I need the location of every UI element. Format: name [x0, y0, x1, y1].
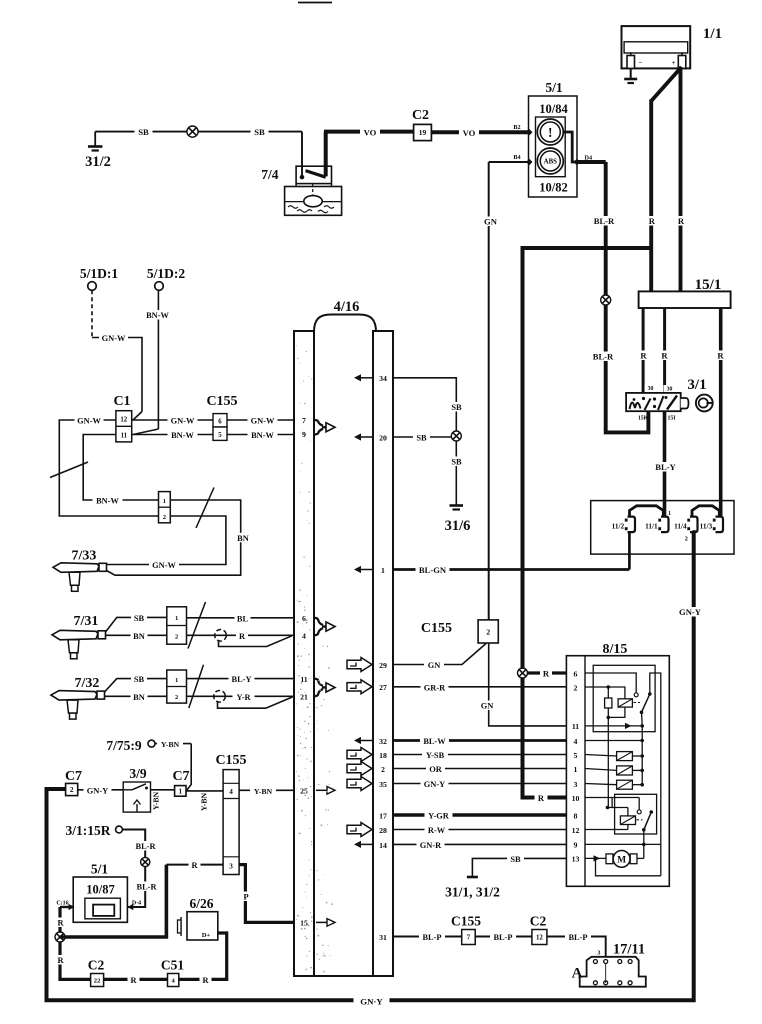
parking brake switch 3/9 — [123, 782, 150, 812]
output arrow pin 20 — [359, 436, 373, 438]
wire BL-P from C155 pin 7 to C2 pin 12 — [475, 936, 532, 938]
svg-text:2: 2 — [175, 694, 178, 701]
wire GN from 4/16 pin 29 to connector C155 pin 2 — [393, 644, 486, 665]
bulb failure box with bulbs 11/2 11/1 11/4 11/3 — [591, 501, 734, 554]
wire Y-BN from C155 pin 4 to 4/16 pin 25 — [239, 789, 294, 791]
terminal B2 of 5/1 — [526, 129, 532, 135]
wire BN from sensor connector pin 1 to 7/33 — [106, 500, 240, 575]
svg-text:C7: C7 — [172, 769, 189, 784]
svg-text:2: 2 — [70, 786, 74, 794]
svg-text:9: 9 — [302, 430, 306, 439]
svg-text:12: 12 — [572, 826, 580, 835]
wire GN-W from C1 pin 12 left to sensor connector pin 2 — [59, 420, 158, 516]
svg-text:2: 2 — [574, 683, 578, 692]
battery negative ground — [630, 68, 632, 79]
svg-text:11: 11 — [572, 722, 579, 731]
terminal 5/1D:2 — [155, 282, 164, 291]
output arrow pin 34 — [359, 377, 373, 379]
svg-text:BL-R: BL-R — [135, 842, 156, 851]
svg-text:31/6: 31/6 — [445, 518, 471, 534]
svg-text:7: 7 — [302, 416, 306, 425]
fluid level switch 7/4 — [285, 166, 342, 215]
svg-text:SB: SB — [416, 434, 427, 443]
svg-text:4: 4 — [229, 788, 233, 796]
svg-text:+: + — [672, 59, 676, 67]
svg-text:11: 11 — [121, 433, 128, 440]
module stipple texture — [296, 345, 333, 972]
bulb 11/3 — [716, 517, 724, 533]
wire R from splice to C155 pin 3 wire — [60, 865, 166, 937]
wire SB from 4/16 pin 34 to splice — [393, 378, 456, 431]
wire GN-Y from 4/16 pin 35 to 8/15 pin 3 — [393, 783, 566, 785]
svg-text:3: 3 — [597, 950, 600, 957]
svg-text:BN: BN — [237, 534, 249, 543]
svg-text:R: R — [661, 351, 668, 361]
svg-text:29: 29 — [379, 661, 387, 670]
svg-text:GN-Y: GN-Y — [87, 786, 108, 795]
key symbol of ignition switch 3/1 — [696, 395, 713, 412]
motor to relay 2 switch wire — [637, 857, 644, 859]
svg-text:C:16: C:16 — [56, 900, 68, 906]
svg-text:7: 7 — [467, 934, 471, 941]
svg-text:BL-Y: BL-Y — [231, 675, 251, 684]
fuse box 15/1 — [639, 291, 731, 308]
svg-text:BN-W: BN-W — [146, 311, 169, 320]
svg-text:25: 25 — [300, 787, 308, 796]
svg-text:A: A — [572, 966, 583, 982]
wire BL-P from 4/16 pin 31 to C155 pin 7 — [393, 936, 462, 938]
input arrow pin 15 — [316, 921, 327, 923]
svg-text:21: 21 — [300, 693, 308, 702]
svg-text:30: 30 — [648, 386, 654, 392]
wire SB from 7/32 to connector pin 1 — [105, 679, 167, 692]
svg-text:VO: VO — [364, 128, 377, 138]
wire BN-W from C1 pin 11 left to sensor connector pin 1 — [83, 435, 158, 501]
wire GN-W from C155 pin 6 to 4/16 pin 7 — [227, 419, 294, 421]
wire SB from 4/16 pin 20 to splice — [393, 436, 451, 438]
svg-text:GN-W: GN-W — [77, 417, 101, 426]
output arrow pin 2 — [347, 762, 372, 776]
connector C2 pin 19 — [414, 124, 432, 140]
output arrow pin 35 — [347, 777, 372, 791]
svg-text:11/3: 11/3 — [700, 521, 713, 530]
svg-text:12: 12 — [120, 417, 127, 424]
wheel speed sensor 7/31 — [52, 630, 98, 640]
wire from relay 1 blade to motor loop — [650, 673, 661, 876]
svg-text:27: 27 — [379, 683, 387, 692]
relay 2 fixed contact — [638, 798, 640, 810]
wire BL-R from 5/1 terminal D4 to ignition switch terminal 15K — [577, 160, 606, 164]
svg-text:5: 5 — [574, 751, 578, 760]
connector C155 pins 4 and 3 — [223, 770, 239, 875]
cable slash mark — [196, 488, 214, 529]
svg-text:18: 18 — [379, 751, 387, 760]
svg-text:7/32: 7/32 — [75, 676, 100, 691]
svg-text:C155: C155 — [206, 394, 237, 409]
svg-text:2: 2 — [175, 634, 178, 641]
svg-text:11/4: 11/4 — [674, 521, 687, 530]
svg-text:BN: BN — [133, 632, 145, 641]
svg-text:GN·Y: GN·Y — [360, 997, 383, 1007]
svg-text:2: 2 — [163, 514, 166, 521]
splice on SB wire — [187, 126, 198, 137]
8/15 internal wire pin 13 to motor — [585, 857, 606, 859]
svg-text:GN-R: GN-R — [420, 841, 442, 850]
wire BN from 7/32 to connector pin 2 — [105, 695, 167, 697]
svg-text:13: 13 — [572, 855, 580, 864]
wire GN-W from C1 pin 12 to C155 pin 6 — [132, 419, 213, 421]
connector C2 pin 12 — [532, 930, 547, 945]
sensor connector for 7/31 pins 1 and 2 — [167, 607, 187, 644]
svg-text:R-W: R-W — [428, 826, 446, 835]
svg-text:BL-Y: BL-Y — [655, 462, 676, 472]
svg-text:5: 5 — [218, 432, 222, 439]
svg-text:C155: C155 — [215, 753, 246, 768]
svg-text:C155: C155 — [451, 914, 481, 929]
wire R segment inside bulb box to 11/3 — [719, 501, 723, 517]
wire VO from 7/4 to connector C2 — [324, 132, 328, 177]
page mark — [298, 2, 332, 4]
svg-text:BN: BN — [133, 693, 145, 702]
bulb 11/4 — [690, 517, 698, 533]
svg-text:BL-R: BL-R — [136, 883, 157, 892]
svg-text:Y-SB: Y-SB — [426, 751, 445, 760]
svg-text:R: R — [239, 632, 246, 641]
svg-text:7/33: 7/33 — [72, 549, 97, 564]
vertical node wire in 8/15 — [607, 717, 609, 807]
relay 1 switch blade — [642, 694, 650, 712]
svg-text:5/1D:2: 5/1D:2 — [147, 266, 185, 281]
svg-text:GN: GN — [484, 217, 498, 227]
svg-text:C2: C2 — [530, 914, 547, 929]
svg-text:7/4: 7/4 — [261, 167, 279, 182]
wire SB from ground 31/2 to sensor 7/4 — [95, 131, 302, 133]
wire R-W from 4/16 pin 28 to 8/15 pin 12 — [393, 829, 566, 831]
wire BN from 7/31 to connector pin 2 — [106, 634, 167, 636]
svg-text:4: 4 — [302, 632, 306, 641]
output arrow pin 29 — [347, 658, 372, 672]
svg-text:6: 6 — [218, 418, 222, 425]
svg-text:15/1: 15/1 — [695, 277, 722, 293]
wire BL-W from 4/16 pin 32 to 8/15 pin 4 — [393, 739, 566, 742]
wire R to 8/15 pin 6 — [528, 671, 567, 674]
svg-text:3: 3 — [574, 780, 578, 789]
svg-text:!: ! — [548, 125, 553, 140]
svg-text:R: R — [649, 216, 656, 226]
wire into 7/4 switch contact — [301, 132, 303, 178]
wire R with shield loop from connector to 4/16 pin 4 — [187, 634, 294, 636]
svg-text:BL-W: BL-W — [423, 737, 446, 746]
8/15 internal wire pin 10 — [585, 797, 639, 799]
wire GN from 5/1 terminal B4 down to connector C155 pin 2 — [489, 161, 529, 163]
ignition switch 3/1 — [626, 393, 688, 411]
svg-text:8/15: 8/15 — [603, 642, 628, 657]
connector C155 pin 2 — [478, 620, 498, 643]
data link connector 17/11 — [580, 957, 646, 987]
8/15 solenoid 1 — [585, 769, 617, 771]
wire BL-P from C2 pin 12 to data link connector 17/11 pin 3 — [547, 937, 606, 962]
8/15 solenoid 3 — [585, 784, 617, 785]
svg-text:R: R — [57, 956, 64, 965]
8/15 internal wire pin 11 — [585, 725, 642, 727]
wheel speed sensor 7/33 — [53, 563, 99, 573]
wire VO from C2 to warning lamp cluster 5/1 terminal B2 — [431, 130, 529, 134]
svg-text:22: 22 — [94, 977, 101, 984]
ground 31/1 31/2 — [467, 876, 478, 879]
svg-text:C51: C51 — [161, 958, 184, 973]
rail R from 10/87 down to connector C2 pin 22 — [60, 907, 91, 979]
svg-text:P: P — [243, 893, 248, 902]
relay 2 switch blade — [650, 810, 654, 814]
svg-text:8: 8 — [574, 811, 578, 820]
connector C51 pin 4 — [168, 974, 179, 987]
relay box 8/15 — [566, 656, 669, 887]
sensor connector for 7/33 pins 1 and 2 — [159, 492, 171, 523]
wire lamp 10/84 to terminal D4 — [563, 132, 577, 162]
wire SB from splice to ground 31/6 — [455, 441, 457, 506]
svg-text:C1: C1 — [113, 394, 130, 409]
wire OR from 4/16 pin 2 to 8/15 pin 1 — [393, 768, 566, 770]
svg-text:VO: VO — [463, 128, 476, 138]
svg-text:SB: SB — [254, 127, 265, 137]
svg-text:R: R — [202, 976, 209, 985]
svg-text:GR-R: GR-R — [424, 683, 446, 692]
svg-text:BL-R: BL-R — [593, 352, 614, 362]
wire SB from 7/31 to connector pin 1 — [106, 617, 167, 632]
ground 31/6 — [450, 504, 464, 507]
svg-text:7/75:9: 7/75:9 — [106, 738, 141, 753]
wire Y-SB from 4/16 pin 18 to 8/15 pin 5 — [393, 754, 566, 756]
wire BL from connector to 4/16 pin 6 — [187, 617, 294, 619]
svg-text:1: 1 — [175, 677, 178, 684]
svg-text:R: R — [57, 919, 64, 928]
svg-text:6: 6 — [574, 669, 578, 678]
splice on BL-R wire — [141, 857, 150, 866]
input arrow pins 6/4 — [315, 618, 324, 625]
wire R from C2 pin 22 to C51 pin 4 — [104, 978, 168, 981]
return pump motor M — [606, 851, 637, 868]
svg-text:R: R — [678, 216, 685, 226]
warning lamp cluster 5/1 with lamps 10/84 and 10/82 — [529, 80, 578, 197]
svg-text:BL-GN: BL-GN — [419, 565, 447, 575]
wire GN from C155 pin 2 down to relay box 8/15 pin 11 — [489, 643, 567, 726]
svg-text:R: R — [543, 669, 550, 679]
wire Y-BN from 7/75:9 joining C7 pin 1 output — [155, 743, 191, 745]
wire GN-W from sensor connector pin 2 to 7/33 — [106, 516, 225, 565]
svg-text:6: 6 — [302, 614, 306, 623]
relay 1 resistor — [607, 687, 609, 698]
bridge wire bulbs 11/4 to 11/3 — [692, 506, 719, 517]
wire GN-Y from bulb 11/4 to bottom rail and up to connector C7 pin 2 — [47, 532, 694, 1000]
brake warning lamp 10/84 — [537, 119, 563, 145]
svg-text:15K: 15K — [638, 416, 649, 422]
relay 2 coil — [627, 808, 629, 816]
svg-text:1: 1 — [668, 510, 671, 517]
svg-text:Y-R: Y-R — [236, 693, 251, 702]
svg-text:GN-Y: GN-Y — [679, 607, 702, 617]
svg-text:C2: C2 — [88, 958, 105, 973]
svg-text:2: 2 — [486, 627, 490, 636]
splice of SB wires — [451, 431, 461, 441]
svg-text:−: − — [639, 59, 643, 67]
connector C2 pin 22 — [91, 974, 104, 987]
svg-text:5/1: 5/1 — [91, 862, 109, 877]
connector C7 pin 1 — [175, 786, 186, 797]
svg-text:OR: OR — [429, 765, 443, 774]
svg-text:5/1: 5/1 — [545, 80, 563, 95]
svg-text:20: 20 — [379, 434, 387, 443]
svg-text:7/31: 7/31 — [74, 614, 99, 629]
ABS control module 4/16 — [294, 315, 393, 977]
8/15 internal wire pin 12 — [585, 829, 628, 831]
svg-text:3/1: 3/1 — [687, 377, 706, 393]
output arrow pin 28 — [347, 823, 372, 837]
svg-text:10/87: 10/87 — [86, 883, 114, 897]
dashed link coil to blade — [634, 702, 641, 704]
svg-text:GN: GN — [428, 661, 441, 670]
svg-text:17/11: 17/11 — [613, 942, 645, 958]
svg-text:31/2: 31/2 — [85, 154, 111, 170]
svg-text:1: 1 — [574, 765, 578, 774]
ABS warning lamp 10/82 — [537, 148, 563, 174]
cable slash mark — [50, 462, 88, 478]
fuse output wire R to ignition switch terminal 30 right — [663, 308, 666, 393]
sensor connector for 7/32 pins 1 and 2 — [167, 670, 187, 703]
8/15 internal relay 1 box — [593, 665, 655, 731]
wire Y-GR from 4/16 pin 17 to 8/15 pin 8 — [393, 813, 566, 816]
svg-text:4/16: 4/16 — [334, 299, 360, 315]
output arrow pin 1 — [359, 569, 373, 571]
svg-text:GN-W: GN-W — [102, 334, 126, 343]
svg-text:11/2: 11/2 — [612, 521, 625, 530]
svg-text:R: R — [191, 861, 198, 870]
svg-text:1: 1 — [179, 787, 183, 795]
svg-text:15I: 15I — [667, 416, 676, 422]
svg-text:1: 1 — [175, 615, 178, 622]
svg-text:10/82: 10/82 — [539, 181, 567, 195]
svg-text:Y-BN: Y-BN — [200, 792, 209, 811]
8/15 internal wire pin 4 — [585, 740, 642, 742]
svg-text:R: R — [130, 976, 137, 985]
svg-text:30: 30 — [667, 387, 673, 393]
svg-text:B4: B4 — [513, 154, 520, 161]
wire BL-R from 3/1:15R to relay 10/87 terminal D4 — [122, 830, 145, 908]
connector C7 pin 2 — [66, 783, 78, 795]
fuse output wire R to bulb 11/3 — [719, 308, 723, 517]
wire BL-GN from 4/16 pin 1 to bulb 11/2 — [393, 568, 629, 571]
wire GN-R from 4/16 pin 14 to 8/15 pin 9 — [393, 843, 566, 845]
battery 1/1 — [622, 26, 691, 68]
wire SB from ground 31/1,31/2 to 8/15 pin 13 — [472, 858, 566, 876]
svg-text:GN-Y: GN-Y — [424, 780, 445, 789]
input arrow pins 11/21 — [315, 679, 324, 686]
svg-text:C7: C7 — [65, 769, 82, 784]
wire BN-W from C155 pin 5 to 4/16 pin 9 — [227, 434, 294, 436]
output arrow pin 32 — [359, 740, 373, 742]
svg-text:15: 15 — [300, 919, 308, 928]
svg-text:Y-BN: Y-BN — [152, 791, 161, 810]
svg-text:3/9: 3/9 — [129, 766, 147, 781]
svg-text:1/1: 1/1 — [703, 26, 722, 42]
input arrow pins 7/9 — [315, 420, 324, 426]
svg-text:GN-W: GN-W — [152, 561, 176, 570]
wire BN-W from C1 pin 11 to C155 pin 5 — [132, 434, 213, 436]
wire GN-Y from C7 pin 2 to switch 3/9 — [78, 789, 124, 791]
fuse output wire R to ignition switch terminal 30 left — [642, 308, 645, 393]
cable slash mark — [189, 665, 204, 708]
svg-text:Y-BN: Y-BN — [254, 787, 273, 796]
svg-text:R: R — [717, 351, 724, 361]
8/15 internal wire pin 6 to switch contact — [585, 673, 636, 693]
bulb 11/1 — [661, 517, 669, 533]
svg-text:R: R — [538, 793, 545, 803]
svg-text:SB: SB — [451, 403, 462, 412]
svg-text:Y-BN: Y-BN — [161, 740, 180, 749]
terminal 30 labels — [645, 385, 657, 392]
connector C1 pins 12 and 11 — [116, 411, 132, 442]
svg-text:D+: D+ — [202, 932, 211, 939]
8/15 internal wire pin 2 to relay 1 coil — [585, 687, 625, 699]
svg-text:1: 1 — [163, 498, 166, 505]
svg-text:BN-W: BN-W — [96, 497, 119, 506]
svg-text:32: 32 — [379, 737, 387, 746]
svg-text:ABS: ABS — [544, 159, 557, 166]
output arrow pin 27 — [347, 680, 372, 694]
svg-text:SB: SB — [510, 855, 521, 864]
wire BL-Y from connector to 4/16 pin 11 — [187, 678, 294, 680]
wire R from C51 pin 4 to alternator 6/26 terminal D+ — [179, 933, 227, 979]
bulb 11/2 — [628, 517, 636, 533]
bridge wire bulbs 11/2 to 11/1 — [630, 506, 664, 517]
relay 1 coil — [618, 699, 632, 707]
svg-text:M: M — [617, 856, 626, 866]
svg-text:GN: GN — [481, 702, 494, 711]
wire R branch from battery feed to relay box 8/15 — [523, 248, 652, 798]
splice on R branch feeding 8/15 pin 6 — [518, 668, 528, 678]
output arrow pin 18 — [347, 748, 372, 762]
8/15 solenoid 5 — [585, 755, 617, 757]
splice on R rail — [55, 932, 65, 942]
wire R from 10/87 C:16 to rail — [60, 906, 73, 908]
cable slash mark — [188, 602, 206, 649]
svg-text:4: 4 — [574, 737, 578, 746]
wire GN-W from 5/1D:1 to C1 pin 12 — [91, 290, 93, 337]
svg-text:BN-W: BN-W — [251, 431, 274, 440]
ground 31/2 — [94, 132, 96, 147]
terminal 5/1D:1 — [88, 282, 97, 291]
alternator 6/26 terminal D+ — [178, 912, 218, 940]
input arrow pin 25 — [316, 789, 327, 791]
svg-text:3: 3 — [229, 863, 233, 871]
svg-text:BL-P: BL-P — [568, 933, 587, 942]
svg-text:GN-W: GN-W — [251, 417, 275, 426]
svg-text:5/1D:1: 5/1D:1 — [80, 266, 118, 281]
svg-text:BL-P: BL-P — [493, 933, 512, 942]
8/15 internal wire pin 9 — [585, 843, 661, 845]
svg-text:BL-R: BL-R — [594, 216, 615, 226]
overspeed warning relay 10/87 in 5/1 — [73, 877, 127, 922]
wire Y-BN from 3/9 to connector C7 pin 1 — [151, 789, 175, 791]
wire BN-W from 5/1D:2 to C1 pin 11 — [157, 290, 159, 429]
wheel speed sensor 7/32 — [51, 691, 97, 701]
terminal B4 of 5/1 — [526, 159, 532, 165]
output arrow pin 14 — [359, 843, 373, 845]
svg-text:SB: SB — [138, 127, 149, 137]
connector C155 pin 7 — [462, 930, 476, 945]
svg-text:31/1, 31/2: 31/1, 31/2 — [445, 885, 500, 900]
svg-text:BL: BL — [237, 614, 249, 623]
splice on BL-R wire — [601, 295, 611, 305]
